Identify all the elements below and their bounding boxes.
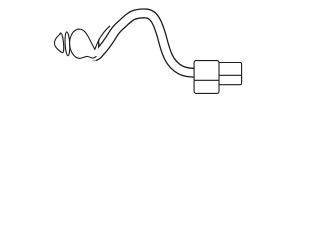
sensor body interior mask shaped to wire crease <box>71 29 95 54</box>
sensor body top arc + wire crease V <box>71 26 110 50</box>
dip bottom patch <box>83 53 96 61</box>
connector body <box>194 61 219 94</box>
sensor tip nub silhouette <box>54 33 62 52</box>
sensor body ellipse base fill <box>69 29 90 59</box>
wire inner white <box>91 13 194 72</box>
sensor body left arc, bottom arc and dip outer wave <box>70 36 97 59</box>
sky patch cleanup over wire stub <box>85 23 108 49</box>
connector plug midline <box>219 74 242 76</box>
wire outer stroke <box>91 13 194 72</box>
connector body midline <box>194 79 219 81</box>
sensor ring 1 <box>59 33 65 53</box>
sensor ring 2 <box>64 32 70 56</box>
connector plug <box>217 63 242 85</box>
